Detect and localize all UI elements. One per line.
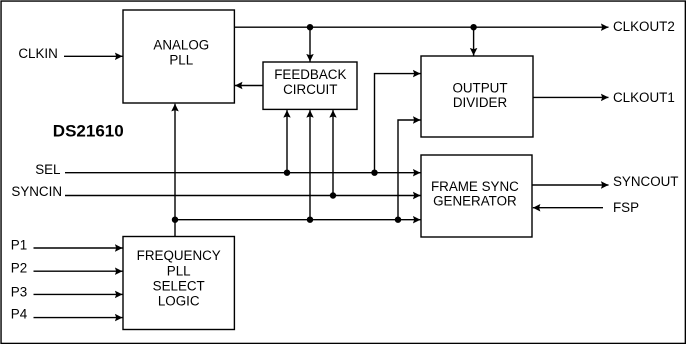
wire SYNCIN line bbox=[65, 195, 421, 197]
wire vertical from FREQUENCY PLL SELECT LOGIC to ANALOG PLL bbox=[174, 104, 176, 237]
wire down to FEEDBACK CIRCUIT top bbox=[309, 27, 311, 61]
wire P3 input bbox=[34, 293, 123, 295]
svg-text:CLKOUT1: CLKOUT1 bbox=[613, 90, 675, 105]
junction at CLKOUT2/feedback tap bbox=[307, 24, 313, 30]
svg-text:SYNCIN: SYNCIN bbox=[11, 184, 62, 199]
wire P4 input bbox=[34, 317, 123, 319]
svg-text:DIVIDER: DIVIDER bbox=[453, 95, 508, 110]
block OUTPUT DIVIDER bbox=[421, 56, 533, 137]
block FEEDBACK CIRCUIT bbox=[263, 62, 357, 109]
wire P2 input bbox=[34, 270, 123, 272]
wire SEL tap to OUTPUT DIVIDER bbox=[375, 74, 421, 173]
svg-text:FREQUENCY: FREQUENCY bbox=[137, 248, 221, 263]
svg-text:GENERATOR: GENERATOR bbox=[433, 194, 517, 209]
block FREQUENCY PLL SELECT LOGIC bbox=[123, 237, 234, 330]
svg-text:SELECT: SELECT bbox=[153, 279, 205, 294]
wire SYNCIN tap up to FEEDBACK CIRCUIT bbox=[332, 110, 334, 195]
block ANALOG PLL bbox=[123, 10, 234, 103]
block FRAME SYNC GENERATOR bbox=[421, 155, 532, 237]
svg-text:CLKOUT2: CLKOUT2 bbox=[613, 19, 675, 34]
wire FEEDBACK CIRCUIT to ANALOG PLL bbox=[235, 85, 263, 87]
wire CLKIN input bbox=[64, 55, 123, 57]
wire frequency select bus line bbox=[175, 219, 421, 221]
svg-text:FEEDBACK: FEEDBACK bbox=[274, 67, 346, 82]
svg-text:CLKIN: CLKIN bbox=[18, 46, 57, 61]
junction at CLKOUT2/output divider tap bbox=[470, 24, 476, 30]
junction freq/feedback tap bbox=[307, 217, 313, 223]
svg-text:FSP: FSP bbox=[613, 200, 639, 215]
junction SYNCIN/feedback tap bbox=[330, 192, 336, 198]
svg-text:LOGIC: LOGIC bbox=[158, 293, 200, 308]
wire SYNCOUT output bbox=[532, 184, 609, 186]
svg-text:SYNCOUT: SYNCOUT bbox=[613, 174, 678, 189]
svg-text:P2: P2 bbox=[11, 261, 27, 276]
svg-text:PLL: PLL bbox=[167, 264, 191, 279]
svg-text:DS21610: DS21610 bbox=[53, 122, 124, 141]
junction SEL/feedback tap bbox=[284, 170, 290, 176]
svg-text:SEL: SEL bbox=[35, 162, 60, 177]
wire SEL line bbox=[65, 172, 421, 174]
wire down to OUTPUT DIVIDER top bbox=[473, 27, 475, 55]
wire freq tap to OUTPUT DIVIDER bbox=[398, 120, 421, 220]
svg-text:P3: P3 bbox=[11, 285, 27, 300]
wire SEL tap up to FEEDBACK CIRCUIT bbox=[286, 110, 288, 173]
wire P1 input bbox=[34, 247, 123, 249]
svg-text:P1: P1 bbox=[11, 237, 27, 252]
junction freq line tap bbox=[172, 217, 178, 223]
wire FSP input bbox=[533, 207, 603, 209]
svg-text:OUTPUT: OUTPUT bbox=[452, 80, 507, 95]
svg-text:CIRCUIT: CIRCUIT bbox=[283, 82, 337, 97]
wire CLKOUT1 output bbox=[533, 96, 609, 98]
svg-text:ANALOG: ANALOG bbox=[153, 38, 209, 53]
junction freq/output divider tap bbox=[395, 217, 401, 223]
svg-text:PLL: PLL bbox=[169, 53, 193, 68]
svg-text:FRAME SYNC: FRAME SYNC bbox=[431, 179, 519, 194]
svg-text:P4: P4 bbox=[11, 307, 28, 322]
wire freq tap up to FEEDBACK CIRCUIT bbox=[309, 110, 311, 220]
wire CLKOUT2 from ANALOG PLL to right bbox=[234, 26, 608, 28]
junction SEL/output divider tap bbox=[371, 170, 377, 176]
